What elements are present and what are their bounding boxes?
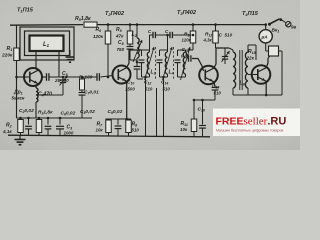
svg-text:С50,02: С50,02 — [80, 109, 95, 115]
svg-text:5мкгн: 5мкгн — [12, 96, 25, 101]
svg-text:4,1к: 4,1к — [2, 129, 12, 134]
svg-text:С90,02: С90,02 — [108, 109, 123, 115]
svg-text:Т1П15: Т1П15 — [17, 8, 34, 14]
svg-text:1000: 1000 — [64, 131, 74, 136]
svg-text:510: 510 — [145, 87, 153, 92]
svg-text:510: 510 — [132, 128, 140, 133]
svg-text:С70,01: С70,01 — [84, 90, 99, 96]
svg-text:R51,8к: R51,8к — [75, 16, 91, 22]
svg-text:1500: 1500 — [125, 87, 135, 92]
svg-text:Магазин бесплатных цифровых то: Магазин бесплатных цифровых товаров — [216, 128, 283, 132]
svg-text:510: 510 — [225, 33, 233, 38]
svg-text:510: 510 — [214, 91, 222, 96]
svg-text:L1: L1 — [43, 42, 50, 48]
svg-text:С60,02: С60,02 — [61, 111, 76, 117]
svg-text:120к: 120к — [93, 34, 104, 39]
svg-text:С4470: С4470 — [38, 92, 52, 98]
svg-text:С20,02: С20,02 — [19, 108, 34, 114]
svg-text:10к: 10к — [180, 127, 188, 132]
svg-text:220к: 220к — [1, 53, 13, 59]
svg-text:FREEseller.RU: FREEseller.RU — [216, 116, 287, 128]
svg-text:25-150: 25-150 — [54, 78, 69, 83]
svg-text:R4160: R4160 — [79, 75, 93, 81]
svg-text:R31,8к: R31,8к — [38, 110, 53, 116]
svg-text:10к: 10к — [96, 128, 104, 133]
svg-text:Т3П402: Т3П402 — [177, 10, 197, 16]
svg-text:0,01: 0,01 — [181, 54, 190, 59]
svg-text:510: 510 — [163, 87, 171, 92]
svg-text:47к: 47к — [115, 34, 124, 39]
svg-text:С: С — [219, 33, 223, 39]
svg-text:4,3к: 4,3к — [203, 38, 213, 43]
svg-text:Т4П15: Т4П15 — [242, 11, 259, 17]
svg-text:9в: 9в — [291, 25, 297, 30]
svg-text:120к: 120к — [182, 38, 192, 43]
svg-text:750: 750 — [117, 47, 125, 52]
svg-text:Т2П402: Т2П402 — [105, 11, 125, 17]
svg-text:μА: μА — [261, 35, 268, 40]
svg-text:22к: 22к — [246, 56, 255, 61]
